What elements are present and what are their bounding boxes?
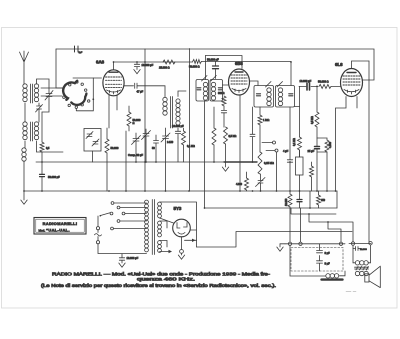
wire PSU y214	[291, 208, 336, 214]
capacitor 10000pF 6L6 grid	[299, 85, 318, 87]
IF transformer 1 can right unit	[210, 80, 223, 102]
wire HT secondary mid taps	[160, 218, 174, 228]
mains switch lever	[101, 213, 111, 216]
resistor AF grid 0.1M	[213, 107, 215, 128]
ground AVC divider	[225, 144, 227, 167]
capacitor electrolytic small on detector line	[299, 191, 301, 199]
wire AVC drop with resistor	[41, 112, 43, 142]
mains voltage selector terminals	[110, 202, 125, 230]
wire trimmer box	[92, 151, 94, 162]
wire osc transformer top	[178, 91, 186, 97]
wire IFT1 bottom drop	[204, 101, 206, 208]
tube 6A8 top electrode	[109, 71, 118, 73]
tube 6A8 envelope	[103, 70, 124, 96]
variable capacitor tuning gang 1	[132, 133, 141, 162]
capacitor 8uF first	[317, 244, 323, 253]
svg-text:8 μF: 8 μF	[325, 261, 331, 265]
capacitor padder osc	[175, 128, 180, 138]
wire 6B8 top cap feed	[206, 56, 243, 69]
resistor 50000 ohm on screen bus	[193, 60, 202, 64]
tube 6B8 grids	[231, 75, 247, 84]
capacitor 4uF cathode	[287, 107, 292, 191]
ground filter	[280, 244, 285, 247]
IF transformer 1 trimmer arrows	[202, 76, 217, 82]
wire L2 to L3 to ground bus	[24, 141, 25, 191]
svg-text:5Y3: 5Y3	[174, 206, 182, 211]
svg-text:50.000 Ω: 50.000 Ω	[189, 65, 200, 69]
terminal output 1	[351, 242, 354, 245]
variable capacitor tuning gang 2	[142, 129, 151, 162]
wire 6L6 screen down	[356, 97, 358, 109]
variable capacitor tuning gang 3	[161, 128, 170, 191]
output transformer core	[355, 266, 369, 270]
wire B+ rail with terminals	[285, 243, 371, 245]
resistor 10000 bleeder	[288, 194, 292, 207]
power transformer primary coil	[145, 200, 149, 252]
resistor osc anode	[182, 131, 186, 145]
tube 6L6 top electrode	[347, 72, 356, 74]
resistor 50000 grid stopper	[319, 84, 331, 88]
svg-text:0,25 MΩ: 0,25 MΩ	[264, 161, 274, 165]
svg-text:10.000: 10.000	[360, 249, 367, 251]
capacitor AVC filter 50000pF	[41, 162, 43, 174]
capacitor 6B8 cathode bypass	[221, 106, 226, 127]
junction dots	[113, 61, 115, 63]
speaker label	[346, 291, 356, 293]
terminal filter 3	[339, 242, 342, 245]
tube 6A8 cathode	[107, 90, 121, 94]
variable capacitor C1 tuning	[45, 91, 53, 101]
resistor detector load	[298, 137, 302, 150]
wire padder to AVC bus	[177, 138, 179, 162]
svg-text:50.000 Ω: 50.000 Ω	[318, 80, 329, 84]
IF transformer 2 can left unit	[254, 86, 274, 108]
resistor 50000 ohm osc grid leak	[127, 112, 131, 126]
antenna transformer L1 primary	[23, 84, 27, 102]
terminal 5Y3 cathode	[181, 237, 183, 250]
wire 6A8 heater down	[116, 95, 118, 110]
svg-text:25.000 Ω: 25.000 Ω	[159, 66, 170, 70]
resistor 0.5M 6L6 grid leak	[316, 86, 318, 112]
resistor cathode 6L6	[317, 138, 327, 140]
wire 5Y3 output arrow	[185, 239, 197, 241]
tube 6L6 grids	[343, 76, 360, 85]
speaker	[365, 274, 369, 282]
tube 5Y3 envelope	[173, 219, 191, 237]
band switch S1 rotor arc upper	[63, 81, 77, 100]
resistor voice coil shunt	[310, 166, 314, 177]
tube 6B8 cathode	[232, 89, 246, 93]
svg-text:6A8: 6A8	[96, 60, 105, 65]
terminal output 2	[369, 242, 372, 245]
svg-text:10.000 pF: 10.000 pF	[142, 63, 154, 67]
svg-text:0,1 MΩ: 0,1 MΩ	[293, 138, 296, 146]
svg-text:6pF: 6pF	[79, 52, 83, 54]
wire bus to rail x310	[309, 191, 311, 208]
trimmer capacitor inside box upper	[86, 132, 93, 139]
svg-text:(Le Note di servizio per quest: (Le Note di servizio per questo ricevito…	[41, 283, 276, 288]
capacitor 25uF cathode bypass	[316, 127, 318, 191]
svg-text:50.000 pF: 50.000 pF	[207, 58, 219, 62]
power transformer core	[152, 200, 154, 255]
electrolytic can dashed box	[291, 248, 343, 272]
capacitor 50000pF series IFT1	[215, 62, 217, 79]
mains selector tap wires	[114, 203, 147, 229]
IF transformer 2 primary cap	[257, 94, 261, 96]
tube 6L6 cathode	[344, 90, 359, 95]
capacitor bypass 10000pF with ground	[134, 62, 139, 70]
wire vertical x126	[125, 131, 127, 191]
tube 6B8 envelope	[229, 69, 250, 95]
svg-text:10.000 pF: 10.000 pF	[300, 79, 312, 83]
capacitor padder fixed	[154, 135, 159, 162]
IF transformer 1 secondary coil	[211, 82, 215, 100]
coil L3 wave trap	[22, 148, 26, 161]
svg-text:47 pF: 47 pF	[137, 90, 144, 94]
capacitor tone across primary	[353, 247, 361, 251]
wire long vertical x145	[144, 49, 146, 191]
wire AVC bus	[36, 161, 224, 163]
svg-text:Mod. “UAL-UAL.: Mod. “UAL-UAL.	[39, 228, 70, 233]
wire IFT1 to 6B8 grid	[223, 84, 230, 86]
wire top HT bus	[56, 49, 374, 80]
power transformer HT secondary	[158, 202, 162, 218]
svg-text:6B8: 6B8	[235, 61, 243, 66]
svg-text:6L6: 6L6	[335, 62, 343, 67]
resistor 1 Mohm diode load	[259, 107, 261, 115]
tube 6L6 envelope	[341, 69, 363, 97]
wire 6L6 top cap to HT	[352, 61, 370, 69]
svg-text:10.000 pF: 10.000 pF	[172, 124, 184, 128]
antenna transformer L1 secondary	[34, 84, 38, 102]
wire drop from top bus at x56	[56, 49, 63, 88]
wire PSU top rail	[205, 207, 338, 209]
terminal phono lower	[275, 149, 278, 152]
svg-text:4 μF: 4 μF	[283, 149, 289, 153]
wire filament taps	[160, 241, 169, 252]
resistor cathode bias first tube	[105, 139, 109, 153]
tube 5Y3 anodes	[177, 223, 187, 235]
svg-text:25 μF: 25 μF	[308, 149, 315, 153]
IF transformer 2 secondary cap	[289, 94, 293, 96]
capacitor 47pF grid coupling	[124, 83, 165, 97]
wire choke right	[340, 271, 346, 276]
wire L1 secondary to tuning cap	[37, 79, 50, 94]
svg-text:RADIOMARELLI: RADIOMARELLI	[43, 221, 78, 226]
oscillator transformer primary	[163, 97, 167, 115]
svg-text:0,5 MΩ: 0,5 MΩ	[229, 135, 237, 138]
wire detector column	[299, 107, 301, 138]
tube 6B8 top electrode	[235, 71, 243, 73]
wire 6A8 cathode down	[108, 95, 110, 128]
capacitor 8uF second	[317, 256, 323, 272]
svg-text:Comp. 30 pF: Comp. 30 pF	[128, 153, 143, 157]
capacitor mains bypass	[119, 254, 124, 263]
AVC line thick	[224, 161, 257, 163]
wire 6L6 cathode down	[336, 97, 347, 192]
svg-text:300 Ω: 300 Ω	[218, 92, 225, 95]
svg-text:4.000: 4.000	[236, 183, 243, 186]
trimmer capacitor inside box lower	[92, 139, 99, 146]
ground bus	[24, 190, 337, 192]
trimmer box padder unit	[84, 129, 101, 152]
wire coil taps to band switch	[41, 88, 64, 96]
terminal filter 1	[288, 242, 291, 245]
svg-text:50.000 pF: 50.000 pF	[48, 175, 60, 179]
IF transformer 2 primary coil	[267, 88, 271, 106]
IF transformer 1 primary coil	[203, 82, 207, 100]
capacitor paper box	[296, 157, 304, 175]
svg-text:10.000: 10.000	[285, 198, 288, 206]
IF transformer 1 can left unit	[196, 80, 209, 102]
antenna transformer L2 primary	[23, 122, 27, 140]
wire bus end corner	[336, 191, 338, 208]
svg-text:quenza 460 KHz.: quenza 460 KHz.	[137, 277, 195, 282]
svg-text:0,1 MΩ: 0,1 MΩ	[187, 145, 195, 148]
wire 6B8 plate to IFT2	[250, 81, 259, 86]
svg-text:10.000 pF: 10.000 pF	[127, 256, 139, 260]
IF transformer 1 primary cap	[197, 88, 201, 90]
svg-text:250: 250	[321, 199, 326, 202]
resistor 250 ohm	[317, 195, 321, 205]
potentiometer wiper	[256, 174, 266, 191]
capacitor on top bus	[75, 46, 79, 52]
wire detector corner	[295, 87, 300, 107]
oscillator transformer core	[171, 97, 173, 129]
wire L2 secondary to band switch	[37, 141, 64, 152]
tube 6A8 grids	[106, 77, 122, 88]
wire PSU rail step	[197, 232, 353, 248]
antenna	[20, 51, 29, 84]
wire 6B8 cathode down	[239, 95, 241, 191]
wire screen bus drop to ground bus	[189, 49, 191, 192]
wire choke feed	[290, 246, 326, 277]
RADIOMARELLI model box	[34, 218, 86, 235]
trimmer capacitor C2	[36, 103, 43, 122]
band switch S1 rotor arc lower	[71, 94, 86, 105]
svg-text:0,5 MΩ: 0,5 MΩ	[311, 116, 314, 124]
wire 6A8 top cap to screen bus	[113, 62, 115, 70]
wire PSU x300 drop	[300, 208, 302, 242]
wire HT secondary top tap	[160, 202, 197, 247]
wire osc grid leak	[128, 106, 130, 131]
output transformer primary	[353, 245, 371, 263]
wire IFT1 primary feed	[205, 56, 207, 80]
oscillator transformer secondary	[176, 99, 180, 125]
mains input lead	[98, 216, 147, 254]
terminal filter 2	[299, 242, 302, 245]
svg-text:2-130: 2-130	[167, 141, 174, 144]
wire screen bus	[114, 62, 292, 86]
svg-text:8 μF: 8 μF	[325, 251, 331, 255]
output transformer secondary	[355, 271, 368, 275]
choke core bar	[322, 278, 343, 280]
resistor 0.25 Mohm volume	[258, 152, 262, 174]
IF transformer 2 trimmer arrows	[266, 82, 283, 88]
capacitor AF coupling	[250, 107, 255, 162]
band switch S1 contacts	[63, 81, 90, 109]
svg-text:4.000: 4.000	[329, 141, 332, 148]
wire switch frame	[76, 78, 93, 111]
resistor 25000 ohm on screen bus	[163, 60, 175, 64]
terminal phono upper	[273, 141, 276, 144]
wire PSU y222	[309, 214, 353, 242]
wire switch to grid line	[73, 77, 102, 79]
antenna transformer L2 secondary	[34, 122, 38, 140]
filter choke field coil	[326, 274, 339, 278]
wire PSU y229	[328, 222, 341, 242]
wire L1 to L2	[24, 103, 26, 122]
svg-text:50.000: 50.000	[111, 146, 119, 150]
wire plate HT vertical	[368, 61, 370, 243]
IF transformer 1 secondary cap	[218, 88, 222, 90]
antenna transformer L2 core	[31, 122, 33, 141]
IF transformer 2 can right unit	[276, 86, 295, 108]
IF transformer 2 secondary coil	[278, 88, 282, 106]
svg-text:1 MΩ: 1 MΩ	[263, 118, 269, 122]
ground symbol left	[21, 200, 27, 204]
resistor 4000 ohm AF	[245, 178, 249, 190]
svg-text:Ω: Ω	[133, 121, 135, 125]
antenna transformer L1 core	[31, 84, 33, 103]
resistor 6B8 cathode bias	[222, 96, 226, 106]
resistor 0.5 Mohm AVC	[223, 126, 225, 128]
wire bias resistor to bus	[106, 128, 108, 191]
